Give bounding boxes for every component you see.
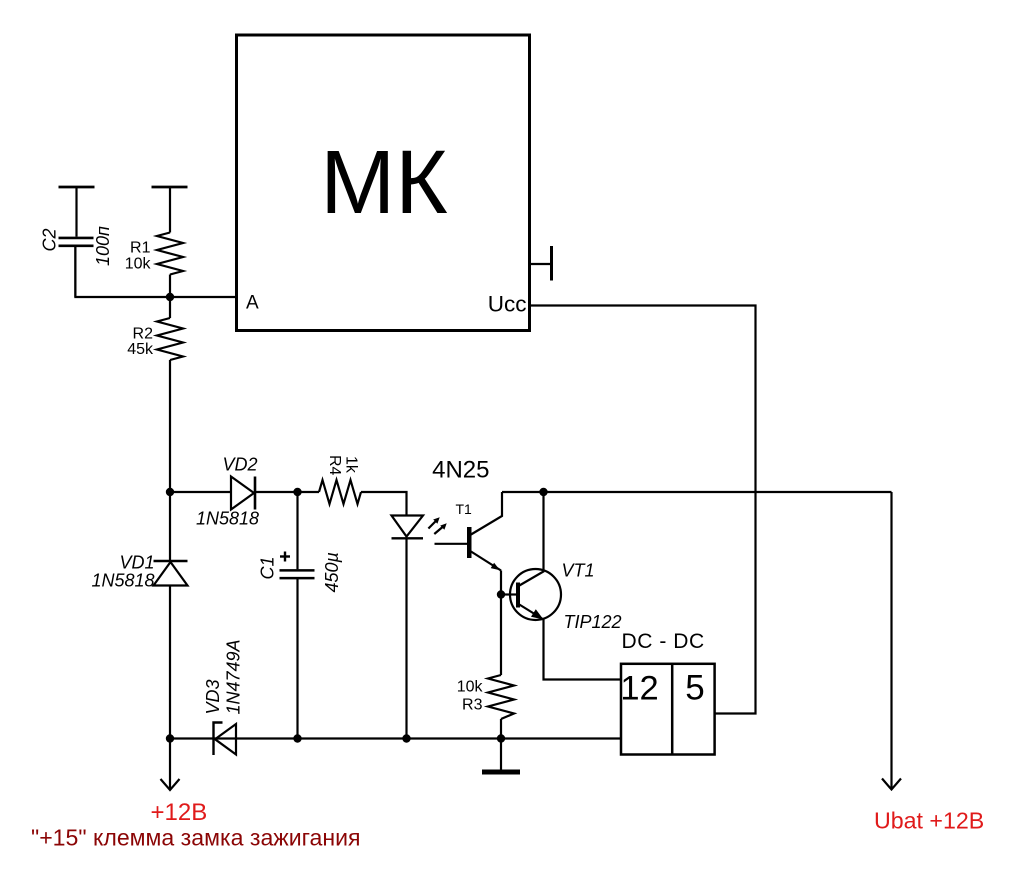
- svg-text:R4: R4: [326, 455, 343, 476]
- capacitor C2: [40, 187, 114, 297]
- capacitor C1: [258, 492, 343, 739]
- node LED bottom junction: [402, 734, 410, 742]
- svg-text:45k: 45k: [127, 341, 154, 358]
- svg-text:R2: R2: [133, 325, 154, 342]
- R4 zigzag: [319, 480, 361, 504]
- svg-text:1N5818: 1N5818: [196, 509, 259, 529]
- VD3 triangle: [215, 724, 236, 755]
- wire node A: [75, 247, 236, 297]
- C1 plate top: [280, 569, 315, 572]
- light arrow 1: [428, 520, 436, 528]
- VT1 emitter lead down: [544, 620, 622, 680]
- svg-text:4N25: 4N25: [432, 457, 489, 484]
- wire +12V down: [169, 739, 171, 790]
- svg-text:"+15" клемма замка зажигания: "+15" клемма замка зажигания: [31, 825, 361, 851]
- node top rail junction: [539, 488, 547, 496]
- svg-text:C1: C1: [258, 556, 278, 579]
- svg-text:R3: R3: [462, 697, 483, 714]
- node A junction: [166, 293, 174, 301]
- R1 bottom lead: [169, 275, 171, 298]
- wire VD2 to C1 node: [255, 491, 319, 493]
- svg-text:C2: C2: [40, 228, 60, 251]
- zener diode VD3: [203, 639, 244, 755]
- reset stub bar: [550, 246, 553, 281]
- svg-text:VD3: VD3: [203, 679, 223, 714]
- +12V arrowhead: [161, 779, 180, 790]
- C1 plus sign: [280, 555, 290, 557]
- Ubat arrowhead: [882, 779, 901, 790]
- R2 top lead: [169, 297, 171, 318]
- diode VD1: [91, 492, 187, 739]
- node VD2 left junction: [166, 488, 174, 496]
- wire T1 emitter down to base node: [500, 571, 502, 676]
- wire Ucc to DC-DC output: [529, 306, 756, 714]
- resistor R2: [127, 297, 183, 492]
- svg-text:1N4749A: 1N4749A: [224, 639, 244, 714]
- R3 bottom lead: [500, 719, 502, 739]
- DC-DC box: [621, 664, 715, 755]
- VD1 cathode bar: [154, 560, 188, 563]
- T1 collector: [471, 492, 502, 535]
- svg-text:VD2: VD2: [223, 455, 258, 475]
- LED triangle: [392, 516, 424, 537]
- T1 emitter arrowhead: [491, 563, 500, 571]
- IC MK (microcontroller) box: [237, 35, 530, 331]
- light arrow 2: [434, 527, 443, 534]
- node C1 bottom junction: [293, 734, 301, 742]
- ground stem: [500, 739, 502, 771]
- ground bar: [482, 770, 520, 775]
- svg-text:МК: МК: [320, 133, 447, 233]
- ground: [482, 739, 520, 773]
- diode VD2: [196, 455, 259, 529]
- VT1 emitter: [519, 604, 544, 620]
- svg-text:100п: 100п: [93, 226, 113, 266]
- LED cathode bar: [392, 537, 424, 539]
- C2 plate top: [59, 237, 94, 240]
- reset stub on MK right: [529, 246, 552, 281]
- svg-text:TIP122: TIP122: [564, 612, 622, 632]
- svg-text:VT1: VT1: [562, 561, 595, 581]
- node VT1 base junction: [497, 590, 505, 598]
- resistor R3: [457, 675, 514, 739]
- C2 plate bottom: [59, 245, 94, 248]
- T1 base bar: [467, 527, 472, 558]
- VT1 emitter arrowhead: [531, 609, 544, 619]
- VD1 top lead: [169, 492, 171, 561]
- C2 top lead: [75, 187, 77, 237]
- VT1 circle: [510, 569, 561, 620]
- VD3 cathode bar with zener wing: [214, 723, 223, 756]
- node bottom left junction: [166, 734, 174, 742]
- resistor R4: [319, 455, 361, 504]
- phototransistor T1: [435, 492, 503, 571]
- VD2 cathode bar: [254, 477, 257, 510]
- svg-text:Ucc: Ucc: [488, 292, 527, 317]
- LED bottom lead: [405, 538, 407, 738]
- C2 top terminal bar: [59, 186, 95, 189]
- VD1 triangle: [154, 562, 188, 586]
- svg-text:+12В: +12В: [151, 799, 208, 826]
- C1 bottom lead: [296, 579, 298, 739]
- svg-text:10k: 10k: [125, 255, 152, 272]
- T1 base lead: [435, 543, 468, 545]
- svg-text:Ubat +12В: Ubat +12В: [874, 808, 984, 834]
- svg-text:5: 5: [685, 669, 704, 708]
- node R3 bottom junction: [497, 734, 505, 742]
- svg-text:DC - DC: DC - DC: [622, 630, 705, 653]
- svg-text:1N5818: 1N5818: [91, 570, 154, 590]
- R1 top terminal bar: [152, 186, 188, 189]
- wire Ubat rail down: [890, 492, 892, 789]
- wire main node to VD2: [170, 491, 231, 493]
- svg-text:450µ: 450µ: [322, 552, 342, 592]
- node C1 top junction: [293, 488, 301, 496]
- VT1 collector lead: [519, 492, 544, 586]
- resistor R1: [125, 187, 188, 297]
- T1 emitter: [471, 552, 501, 571]
- C2 bottom lead: [74, 247, 76, 297]
- R2 bottom lead: [169, 360, 171, 492]
- svg-text:1k: 1k: [343, 456, 360, 474]
- R3 zigzag: [488, 675, 514, 719]
- VD2 triangle: [231, 477, 254, 510]
- svg-text:12: 12: [620, 670, 658, 708]
- R2 zigzag: [157, 318, 183, 360]
- wire collector top rail: [502, 491, 892, 493]
- svg-text:T1: T1: [456, 501, 473, 517]
- wire bottom rail: [170, 737, 621, 739]
- svg-text:10k: 10k: [457, 679, 484, 696]
- wire VT1 base: [501, 593, 516, 595]
- transistor VT1: [510, 492, 622, 680]
- DC-DC divider: [671, 664, 674, 755]
- DC-DC converter: [620, 630, 714, 755]
- C1 plate bottom: [280, 577, 315, 580]
- svg-text:A: A: [246, 293, 259, 314]
- reset stub wire: [529, 263, 552, 265]
- R1 zigzag: [157, 233, 183, 275]
- R1 top lead: [169, 187, 171, 233]
- svg-text:R1: R1: [130, 239, 151, 256]
- LED of optocoupler 4N25: [392, 516, 447, 739]
- VT1 base bar: [516, 583, 520, 608]
- wire R4 to LED: [361, 492, 407, 516]
- C1 top lead: [296, 492, 298, 569]
- VD1 bottom lead: [169, 586, 171, 739]
